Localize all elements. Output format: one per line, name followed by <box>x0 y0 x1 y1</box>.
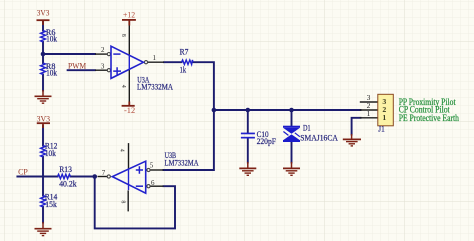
svg-text:15k: 15k <box>45 199 57 209</box>
svg-text:PE Protective Earth: PE Protective Earth <box>399 113 460 123</box>
svg-text:R13: R13 <box>59 164 72 174</box>
svg-text:3V3: 3V3 <box>37 9 50 18</box>
svg-text:4: 4 <box>118 149 124 152</box>
svg-text:J1: J1 <box>378 123 385 133</box>
svg-text:10k: 10k <box>45 148 57 158</box>
svg-text:+12: +12 <box>123 10 135 19</box>
svg-text:LM7332MA: LM7332MA <box>165 157 200 167</box>
svg-text:R7: R7 <box>180 47 189 57</box>
svg-text:PWM: PWM <box>68 62 86 71</box>
svg-text:SMAJ16CA: SMAJ16CA <box>300 132 338 142</box>
svg-text:4: 4 <box>120 85 126 88</box>
svg-text:D1: D1 <box>303 123 311 133</box>
svg-text:10k: 10k <box>46 68 58 78</box>
svg-text:1: 1 <box>382 113 386 122</box>
svg-text:10k: 10k <box>46 33 58 43</box>
svg-text:8: 8 <box>120 34 126 37</box>
svg-text:LM7332MA: LM7332MA <box>137 82 174 92</box>
svg-text:CP: CP <box>18 167 28 176</box>
svg-text:1: 1 <box>153 54 157 62</box>
svg-text:3V3: 3V3 <box>37 114 51 123</box>
svg-text:7: 7 <box>102 169 106 177</box>
svg-text:8: 8 <box>120 200 126 203</box>
svg-text:6: 6 <box>151 179 155 187</box>
svg-text:1: 1 <box>367 109 371 118</box>
svg-text:2: 2 <box>101 46 105 54</box>
svg-text:5: 5 <box>150 162 154 170</box>
svg-text:40.2k: 40.2k <box>59 179 77 189</box>
svg-text:-12: -12 <box>124 106 135 115</box>
svg-text:220pF: 220pF <box>257 136 277 146</box>
svg-text:3: 3 <box>101 62 105 70</box>
svg-text:1k: 1k <box>180 65 187 75</box>
